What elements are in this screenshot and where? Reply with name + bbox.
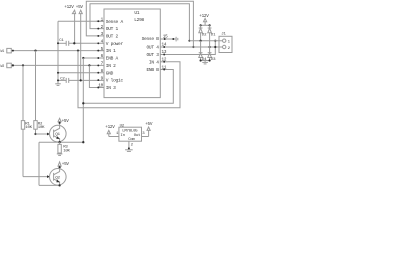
node W2 to R1 branch	[22, 64, 24, 66]
power +5V regulator	[145, 122, 153, 137]
node ENB rail top	[82, 57, 84, 59]
power +5V Q2	[58, 162, 69, 169]
svg-text:OUT 1: OUT 1	[106, 26, 119, 32]
svg-text:W2: W2	[1, 64, 5, 68]
wire W1 to IN1	[11, 50, 104, 52]
node OUT2 joins row B	[192, 46, 194, 48]
svg-text:OUT 4: OUT 4	[146, 45, 159, 51]
node Q2 collector top	[59, 166, 61, 168]
svg-text:W1: W1	[1, 49, 5, 53]
node D2 on row A	[200, 40, 202, 42]
node ENB rail to wrap	[82, 102, 84, 104]
node +5V rail to V logic	[80, 79, 82, 81]
node pin joints U1 left	[97, 20, 99, 88]
pin labels U1 right	[142, 36, 160, 73]
diode D2	[199, 25, 207, 40]
diode D1	[208, 25, 216, 47]
capacitor C1	[58, 39, 104, 46]
wire OUT3 pin13 jog up to node row A	[168, 41, 215, 55]
wire regulator common down	[128, 141, 130, 150]
svg-text:Sense B: Sense B	[142, 36, 160, 42]
node bridge top rail right	[209, 24, 211, 26]
diode D4	[199, 41, 207, 62]
svg-text:10K: 10K	[38, 126, 45, 130]
node W2 to IN3 branch	[88, 64, 90, 66]
diode D3	[208, 47, 216, 62]
wire GND pin8 to rail	[58, 72, 104, 74]
pin numbers U1 left	[98, 17, 103, 88]
voltage regulator U2	[116, 125, 145, 148]
node bridge bottom right	[209, 59, 211, 61]
wire Sense A to ground rail	[58, 20, 104, 22]
svg-text:IN 4: IN 4	[149, 59, 159, 65]
node Sense B flag joint	[172, 38, 174, 40]
svg-text:ENB B: ENB B	[146, 67, 159, 73]
wire bridge top rail	[201, 24, 210, 26]
node C2 to ground rail	[57, 79, 59, 81]
connector J1	[219, 33, 232, 53]
svg-text:GND: GND	[106, 70, 114, 76]
wire R1 to Q2 base	[23, 176, 47, 178]
svg-text:ENB A: ENB A	[106, 56, 119, 62]
svg-text:V logic: V logic	[106, 78, 124, 84]
wire +12V rail to V power	[74, 14, 76, 44]
pin stubs U1 right	[161, 39, 169, 70]
node pin8 rail joint	[57, 72, 59, 74]
svg-text:Sense A: Sense A	[106, 19, 124, 25]
wire Q1 emitter row	[39, 141, 83, 143]
node R2 corner	[34, 133, 36, 135]
node W1 to IN4 branch	[77, 50, 79, 52]
ground regulator	[125, 150, 133, 152]
svg-text:+12V: +12V	[105, 125, 115, 130]
wire ground rail left	[57, 21, 59, 84]
wire Q2 emitter row	[39, 184, 60, 186]
svg-text:+5V: +5V	[76, 5, 84, 10]
wire ENB B wrap-around	[83, 70, 173, 104]
wire W2 to IN2	[11, 64, 104, 66]
wire IN4 wrap-around	[78, 51, 180, 108]
node crossing blob on OUT4 wire	[214, 46, 216, 48]
svg-text:+5V: +5V	[145, 122, 153, 127]
node OUT1 joins row A	[188, 40, 190, 42]
capacitor C2	[58, 77, 104, 83]
wire bridge bottom rail	[201, 60, 210, 62]
pin numbers U1 right	[162, 35, 169, 71]
node W2 pad joint	[12, 64, 14, 66]
svg-text:+5V: +5V	[62, 162, 70, 167]
node C1 to ground rail	[57, 42, 59, 44]
node OUT3 joins row A	[214, 40, 216, 42]
pad W1	[1, 48, 12, 53]
wire R2 to Q1 base	[36, 133, 48, 135]
power +12V diode bridge	[199, 14, 209, 25]
pin stubs U1 left	[97, 21, 105, 87]
resistor R1	[21, 65, 32, 176]
node W1 to R2 branch	[34, 50, 36, 52]
node Sense B stub joint	[164, 38, 166, 40]
svg-text:+12V: +12V	[199, 14, 209, 19]
node regulator common	[128, 147, 130, 149]
power +5V Q1	[58, 118, 69, 125]
node bridge bottom left	[200, 59, 202, 61]
wire ENB A row	[83, 57, 104, 59]
wire regulator output	[142, 136, 149, 138]
svg-text:OUT 3: OUT 3	[146, 52, 159, 58]
ground R3	[57, 154, 63, 156]
resistor R2	[34, 51, 45, 134]
node emitter to ENB rail	[82, 141, 84, 143]
node pin joints U1 right	[163, 46, 165, 70]
node W1 pad joint	[12, 50, 14, 52]
wire emitter down to Q2 emitter	[38, 142, 40, 185]
node Q1 collector top	[59, 122, 61, 124]
ground flag Sense B	[168, 37, 178, 42]
pin labels U1 left	[106, 19, 124, 91]
svg-text:10K: 10K	[63, 149, 70, 153]
IC U1 L298 dual H-bridge body	[104, 9, 160, 98]
wire OUT1 over the top to node row A	[90, 4, 189, 41]
wire node row A to J1 pin 1	[189, 40, 222, 42]
wire OUT4 pin14 to J1 pin 2	[168, 46, 223, 48]
svg-text:L298: L298	[134, 17, 144, 23]
power +12V regulator	[105, 125, 115, 136]
svg-text:V power: V power	[106, 41, 124, 47]
svg-text:+12V: +12V	[64, 5, 74, 10]
node Q1 emitter	[58, 141, 60, 143]
wire +5V rail to V logic row	[80, 14, 82, 81]
svg-text:LM78L05: LM78L05	[122, 129, 138, 133]
svg-text:+5V: +5V	[62, 119, 70, 124]
ground bridge	[202, 61, 208, 64]
node bridge top rail left	[200, 24, 202, 26]
wire ENB vertical rail	[82, 58, 84, 142]
node D1 cathode joins OUT4 wire	[209, 46, 211, 48]
node Q2 emitter	[58, 184, 60, 186]
ground symbol left rail	[55, 84, 61, 86]
wire regulator input	[109, 136, 119, 138]
wire IN3 link from W2	[89, 65, 104, 87]
svg-text:10K: 10K	[25, 126, 32, 130]
svg-text:U1: U1	[134, 10, 139, 16]
wire OUT2 over the top to node row B	[86, 1, 193, 47]
power +12V top	[64, 5, 75, 14]
svg-text:OUT 2: OUT 2	[106, 34, 119, 40]
resistor R3	[58, 142, 71, 154]
svg-text:IN 1: IN 1	[106, 48, 116, 54]
power +5V top	[76, 5, 84, 14]
svg-text:IN 3: IN 3	[106, 85, 116, 91]
transistor Q2	[50, 169, 67, 186]
svg-text:IN 2: IN 2	[106, 63, 116, 69]
node +12V on V power wire	[73, 42, 75, 44]
transistor Q1	[50, 125, 67, 142]
pad W2	[1, 63, 12, 68]
